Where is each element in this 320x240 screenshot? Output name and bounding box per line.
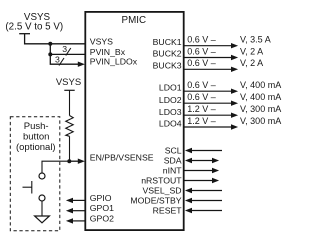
wire MODE/STBY input with arrowhead into pin: [185, 198, 222, 203]
svg-text:1.2 V –: 1.2 V –: [187, 104, 216, 114]
IC U1 PMIC block: [85, 12, 183, 230]
junction EN node: [67, 159, 71, 163]
svg-text:VSYS: VSYS: [56, 77, 81, 88]
wire VSEL_SD input with arrowhead into pin: [185, 188, 222, 193]
svg-text:SCL: SCL: [165, 145, 182, 155]
svg-text:0.6 V –: 0.6 V –: [187, 58, 216, 68]
svg-text:3: 3: [55, 54, 60, 64]
svg-text:button: button: [23, 132, 49, 143]
bus width slash 3 on PVIN_Bx: [62, 44, 71, 55]
wire nINT output with arrowhead: [185, 168, 220, 173]
svg-text:LDO3: LDO3: [159, 107, 182, 117]
power rail tap VSYS (pull-up): [64, 89, 74, 91]
svg-text:BUCK3: BUCK3: [153, 61, 182, 71]
svg-text:0.6 V –: 0.6 V –: [187, 92, 216, 102]
junction on VSYS wire: [48, 42, 52, 46]
wire rail to resistor: [69, 90, 71, 115]
svg-text:V, 400 mA: V, 400 mA: [240, 80, 281, 90]
svg-text:EN/PB/VSENSE: EN/PB/VSENSE: [90, 153, 154, 163]
wire BUCK3 output with arrowhead: [185, 67, 239, 72]
switch S1 actuator: [23, 181, 32, 194]
arrowhead into EN/PB/VSENSE pin: [78, 159, 85, 164]
wire BUCK2 output with arrowhead: [185, 55, 239, 60]
wire GPO2 with arrowhead out: [66, 218, 85, 223]
svg-text:MODE/STBY: MODE/STBY: [130, 195, 181, 205]
wire VSYS to PVIN_Bx: [50, 44, 85, 55]
svg-text:V, 300 mA: V, 300 mA: [240, 116, 281, 126]
svg-text:1.2 V –: 1.2 V –: [187, 116, 216, 126]
switch S1 push-button contact bottom: [39, 195, 45, 201]
wire GPO1 with arrowhead out: [66, 208, 85, 213]
svg-text:V, 2 A: V, 2 A: [240, 58, 263, 68]
svg-text:nINT: nINT: [163, 165, 183, 175]
svg-text:LDO4: LDO4: [159, 119, 182, 129]
wire BUCK1 output with arrowhead: [185, 43, 239, 48]
push-button optional enclosure (dashed): [10, 117, 60, 231]
svg-text:RESET: RESET: [153, 205, 183, 215]
svg-text:Push-: Push-: [24, 121, 49, 132]
svg-text:0.6 V –: 0.6 V –: [187, 35, 216, 45]
svg-text:GPO1: GPO1: [90, 203, 114, 213]
svg-text:BUCK2: BUCK2: [153, 49, 182, 59]
node VSYS input label: [5, 12, 63, 33]
svg-text:3: 3: [62, 44, 67, 54]
arrowhead into PVIN_LDOx pin: [78, 62, 85, 67]
ground: [35, 216, 50, 223]
svg-text:(optional): (optional): [16, 142, 56, 153]
junction on PVIN_Bx wire: [48, 52, 52, 56]
svg-text:LDO1: LDO1: [159, 82, 182, 92]
wire LDO3 output with arrowhead: [185, 113, 239, 118]
svg-text:BUCK1: BUCK1: [153, 37, 182, 47]
svg-text:0.6 V –: 0.6 V –: [187, 46, 216, 56]
svg-text:V, 2 A: V, 2 A: [240, 46, 263, 56]
wire LDO2 output with arrowhead: [185, 101, 239, 106]
svg-text:SDA: SDA: [164, 155, 182, 165]
svg-text:PVIN_LDOx: PVIN_LDOx: [90, 57, 138, 67]
wire LDO4 output with arrowhead: [185, 124, 239, 129]
svg-text:GPO2: GPO2: [90, 213, 114, 223]
wire EN node to push-button: [42, 161, 70, 173]
svg-text:PVIN_Bx: PVIN_Bx: [90, 47, 126, 57]
wire resistor to EN node: [69, 136, 71, 161]
svg-text:V, 300 mA: V, 300 mA: [240, 104, 281, 114]
switch S1 push-button contact top: [39, 173, 45, 179]
svg-text:PMIC: PMIC: [122, 15, 147, 26]
wire EN node to EN/PB/VSENSE pin: [70, 160, 79, 162]
svg-text:GPIO: GPIO: [90, 193, 112, 203]
wire RESET input with arrowhead into pin: [185, 208, 222, 213]
svg-text:VSEL_SD: VSEL_SD: [142, 185, 181, 195]
wire GPIO with arrowhead out: [66, 198, 85, 203]
wire SCL input with arrowhead into pin: [185, 148, 222, 153]
svg-text:V, 400 mA: V, 400 mA: [240, 92, 281, 102]
svg-text:(2.5 V to 5 V): (2.5 V to 5 V): [5, 22, 63, 33]
wire LDO1 output with arrowhead: [185, 89, 239, 94]
svg-text:V, 3.5 A: V, 3.5 A: [240, 35, 271, 45]
wire nRSTOUT output with arrowhead: [185, 178, 220, 183]
wire SDA bidirectional with arrowheads: [185, 158, 219, 163]
wire VSYS to PVIN_LDOx: [50, 54, 79, 64]
bus width slash 3 on PVIN_LDOx: [55, 54, 64, 65]
wire VSYS rail to VSYS pin: [25, 34, 85, 44]
svg-text:0.6 V –: 0.6 V –: [187, 80, 216, 90]
resistor R1 pull-up: [66, 116, 73, 137]
power rail tap VSYS (top): [19, 33, 30, 35]
svg-text:VSYS: VSYS: [90, 37, 113, 47]
svg-text:nRSTOUT: nRSTOUT: [141, 175, 182, 185]
svg-text:LDO2: LDO2: [159, 95, 182, 105]
wire push-button to ground: [41, 201, 43, 216]
